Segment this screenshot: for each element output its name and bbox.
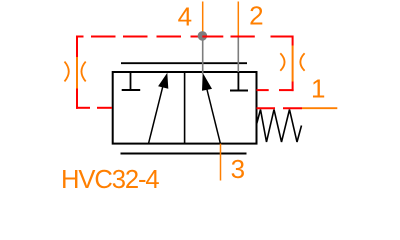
orifice left curves bbox=[65, 62, 86, 82]
svg-text:3: 3 bbox=[231, 154, 245, 184]
pilot line left bottom dashed bbox=[76, 107, 112, 109]
pilot line top dashed bbox=[77, 36, 293, 38]
port 4 line (orange upper) bbox=[202, 2, 204, 37]
port 4 stem (grey) bbox=[202, 37, 204, 75]
orifice right vertical (orange) bbox=[292, 46, 294, 82]
flow arrow right (head) bbox=[202, 73, 212, 91]
pilot line left vertical bbox=[76, 36, 78, 109]
orifice left vertical (orange) bbox=[76, 57, 78, 89]
blocked port symbol right (stub) bbox=[237, 72, 239, 91]
blocked port symbol left (bar) bbox=[122, 89, 141, 91]
flow arrow right (shaft) bbox=[207, 88, 221, 144]
pilot line right upper dashed bbox=[257, 89, 294, 91]
flow arrow left (shaft) bbox=[149, 83, 164, 144]
pilot line right lower dashed bbox=[257, 107, 303, 109]
port 3 line (orange) bbox=[220, 144, 222, 181]
blocked port symbol left (stub) bbox=[130, 72, 132, 90]
svg-text:2: 2 bbox=[249, 1, 263, 31]
flow arrow left (head) bbox=[158, 73, 168, 89]
spool divider bbox=[184, 72, 186, 144]
junction dot bbox=[198, 31, 208, 41]
orifice right curves bbox=[280, 53, 304, 71]
blocked port symbol right (bar) bbox=[230, 90, 248, 92]
port 2 line (orange upper) bbox=[237, 2, 239, 37]
svg-text:HVC32-4: HVC32-4 bbox=[61, 166, 159, 194]
valve body outline bbox=[113, 72, 257, 144]
svg-text:4: 4 bbox=[178, 2, 192, 32]
bottom rail line bbox=[121, 153, 247, 155]
spring bbox=[257, 110, 302, 143]
pilot line right vertical bbox=[292, 36, 294, 92]
port 2 stem (grey) bbox=[237, 37, 239, 73]
svg-text:1: 1 bbox=[311, 74, 325, 104]
top rail line bbox=[121, 62, 247, 64]
pilot line over dot bbox=[202, 36, 207, 38]
port 1 line (orange) bbox=[302, 107, 337, 109]
